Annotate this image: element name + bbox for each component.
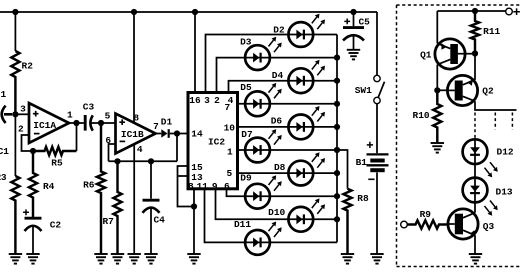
svg-text:IC1A: IC1A <box>33 120 56 131</box>
switch SW1 <box>374 75 385 103</box>
label D2 <box>273 25 285 36</box>
svg-text:1: 1 <box>227 147 233 158</box>
wire: C5 to ground <box>353 36 355 50</box>
wire: peak-detector feedback line <box>109 160 178 162</box>
LED D11 <box>245 222 282 255</box>
svg-text:4: 4 <box>137 144 143 155</box>
svg-text:14: 14 <box>191 129 203 140</box>
pin label 16 <box>189 95 201 106</box>
svg-text:2: 2 <box>18 123 24 134</box>
junction: Q1 collector / Q2 base / R10 node <box>434 87 440 93</box>
label D13 <box>496 187 513 198</box>
battery B1 <box>367 154 389 170</box>
svg-text:D13: D13 <box>496 187 513 198</box>
wire: input node down to R3 <box>14 114 16 176</box>
junction: IC1B +input bias node <box>98 120 104 126</box>
svg-text:D2: D2 <box>273 25 285 36</box>
label C2 <box>50 220 62 231</box>
junction: C4 tap <box>148 158 154 164</box>
LED D10 <box>288 198 325 231</box>
label D5 <box>240 82 252 93</box>
junction: cathode rail at y=150.0 <box>334 147 340 153</box>
label IC1B <box>121 129 144 140</box>
wire: rail to R2 <box>14 12 16 51</box>
label 1 (cut-off input designator) <box>1 89 7 100</box>
wire: option +V rail <box>437 10 506 12</box>
wire: IC2 pin 6 to D9 row <box>227 189 338 196</box>
label D8 <box>274 162 286 173</box>
LED D2 <box>288 14 325 47</box>
svg-text:B1: B1 <box>356 157 368 168</box>
label R9 <box>420 209 432 220</box>
svg-text:D6: D6 <box>271 115 283 126</box>
wire: detector node to feedback line <box>176 134 178 162</box>
wire: IC2 pin 7 to D5 row <box>237 103 338 105</box>
svg-text:R9: R9 <box>420 209 432 220</box>
wire: Q2 collector to LED chain bus <box>475 101 517 110</box>
svg-text:8: 8 <box>188 181 194 192</box>
pin label 8 <box>188 181 194 192</box>
wire: IC2 pin 2 to D3 row <box>217 58 338 92</box>
svg-text:R4: R4 <box>43 181 55 192</box>
label D1 <box>161 117 173 128</box>
ground: B1 <box>370 254 383 264</box>
plus sign IC1A +input <box>33 111 39 117</box>
svg-text:D9: D9 <box>240 173 252 184</box>
junction: R7 tap <box>114 158 120 164</box>
svg-text:C3: C3 <box>83 102 95 113</box>
LED D4 <box>288 60 325 93</box>
IC U2 (IC2 LED bar driver) body <box>188 93 238 189</box>
svg-text:C1: C1 <box>0 146 9 157</box>
label D12 <box>497 146 514 157</box>
wire: IC2 pin 9 to D10 row <box>216 189 338 219</box>
pin label 15 <box>191 162 203 173</box>
plus sign C5 polarity <box>344 19 350 25</box>
svg-text:SW1: SW1 <box>355 85 372 96</box>
pin label 13 <box>191 172 203 183</box>
svg-text:Q1: Q1 <box>420 50 432 61</box>
label SW1 <box>355 85 372 96</box>
junction: input bias node on rail <box>12 9 18 15</box>
svg-text:IC1B: IC1B <box>121 129 144 140</box>
transistor Q2 <box>446 75 478 105</box>
svg-text:R3: R3 <box>0 172 7 183</box>
svg-text:D7: D7 <box>241 129 253 140</box>
dashed enclosure box (optional driver section) <box>397 5 520 267</box>
svg-text:C2: C2 <box>50 220 62 231</box>
label C5 <box>358 16 370 27</box>
LED D12 <box>463 139 498 177</box>
pin label 5 <box>226 168 232 179</box>
junction: pin8/ref node <box>191 203 197 209</box>
svg-text:Q2: Q2 <box>482 85 494 96</box>
resistor R2 <box>11 51 19 114</box>
label IC1A <box>33 120 56 131</box>
resistor R3 <box>11 176 19 254</box>
pin label 10 <box>224 122 236 133</box>
op-amp IC1B <box>116 114 156 154</box>
pin label 7 <box>224 102 230 113</box>
LED D13 <box>463 178 498 216</box>
wire: LED common cathode rail <box>336 35 338 243</box>
transistor Q1 (PNP) <box>435 39 466 69</box>
capacitor C2 (electrolytic) <box>25 218 42 231</box>
svg-text:D10: D10 <box>268 207 285 218</box>
junction: C5 tap on rail <box>350 9 356 15</box>
wire: R5 to IC1A output <box>76 123 78 151</box>
wire: IC1B pin 6 feedback bracket <box>109 144 116 161</box>
minus sign IC1B -input <box>120 140 126 142</box>
label D10 <box>268 207 285 218</box>
svg-text:D5: D5 <box>240 82 252 93</box>
wire: rail drop to SW1 <box>376 12 378 75</box>
svg-text:R7: R7 <box>102 216 114 227</box>
svg-text:11: 11 <box>197 181 209 192</box>
pin label 7 (IC1B out) <box>153 121 159 132</box>
label R6 <box>83 179 95 190</box>
svg-text:R6: R6 <box>83 179 95 190</box>
wire: IC2 pin 11 to D11 row <box>205 189 338 242</box>
label R8 <box>357 193 369 204</box>
plus sign B1 positive <box>367 142 373 148</box>
svg-text:7: 7 <box>224 102 230 113</box>
svg-text:5: 5 <box>105 110 111 121</box>
junction: cathode rail at y=57.6 <box>334 55 340 61</box>
wire: IC1B pin 4 to ground <box>133 144 135 254</box>
LED D8 <box>288 152 325 185</box>
pin label 2 <box>214 95 220 106</box>
label D4 <box>272 70 284 81</box>
label Q1 <box>420 50 432 61</box>
ground: R3 <box>9 254 22 264</box>
junction: IC2 pin16 supply tap on rail <box>192 9 198 15</box>
svg-text:7: 7 <box>153 121 159 132</box>
label D6 <box>271 115 283 126</box>
junction: R11 tap on option rail <box>472 8 478 14</box>
wire: Q1 base to R11 node <box>465 53 476 55</box>
plus sign C2 polarity <box>23 209 29 215</box>
pin label 11 <box>197 181 209 192</box>
resistor R9 <box>407 220 446 228</box>
svg-text:D12: D12 <box>497 146 514 157</box>
svg-text:R11: R11 <box>483 26 500 37</box>
svg-text:3: 3 <box>204 95 210 106</box>
wire: IC2 pin 10 to D6 row <box>237 126 338 128</box>
junction: cathode rail at y=126.9 <box>334 124 340 130</box>
terminal: + supply input <box>506 8 513 15</box>
label R2 <box>22 60 34 71</box>
label Q3 <box>483 221 495 232</box>
resistor R10 <box>433 90 441 143</box>
label R11 <box>483 26 500 37</box>
label D11 <box>234 219 251 230</box>
pin label 5 (IC1B +in) <box>105 110 111 121</box>
pin label 3 <box>204 95 210 106</box>
wire: C2 to ground <box>32 226 34 254</box>
label D7 <box>241 129 253 140</box>
diode D1 <box>161 129 168 138</box>
svg-text:C4: C4 <box>153 214 165 225</box>
svg-text:R2: R2 <box>22 60 34 71</box>
LED D9 <box>245 175 282 208</box>
svg-text:R5: R5 <box>51 158 63 169</box>
resistor R8 <box>343 189 351 254</box>
svg-text:Q3: Q3 <box>483 221 495 232</box>
pin label 3 (IC1A +in) <box>20 103 26 114</box>
svg-text:D3: D3 <box>240 36 252 47</box>
capacitor C4 <box>143 200 160 213</box>
ground: C2 <box>26 254 39 264</box>
pin label 6 <box>224 181 230 192</box>
terminal: drive input <box>401 221 408 228</box>
wire: SW1 to battery B1 <box>376 104 378 154</box>
ground: R6 <box>94 254 107 264</box>
wire: IC2 pin 1 to D7 row <box>237 149 338 151</box>
pin label 1 <box>227 147 233 158</box>
ground: IC2 pin 8 <box>187 254 200 264</box>
op-amp IC1A <box>29 103 69 143</box>
label R10 <box>413 110 430 121</box>
wire: IC2 pin 3 to D2 row <box>206 35 338 93</box>
wire: +V top supply rail <box>0 11 377 13</box>
wire: IC1B pin 8 to top rail <box>133 12 135 123</box>
plus sign supply terminal <box>513 8 520 15</box>
label R7 <box>102 216 114 227</box>
ground: R7 <box>111 254 124 264</box>
pin label 1 (IC1A out) <box>67 110 73 121</box>
minus sign IC1A -input <box>34 133 40 135</box>
junction: cathode rail at y=219.3 <box>334 216 340 222</box>
junction: cathode rail at y=196.2 <box>334 193 340 199</box>
wire: IC2 pins 15,13 bus <box>178 166 195 207</box>
wire: input node to pin 3 <box>15 113 29 115</box>
wire: B1 to ground <box>376 172 378 254</box>
wire: C3 to IC1B pin 5 <box>91 122 115 124</box>
svg-text:1: 1 <box>1 89 7 100</box>
wire: IC1B output to D1 <box>156 133 162 135</box>
wire: C4 to ground <box>150 208 152 254</box>
pin label 4 (IC1B V-) <box>137 144 143 155</box>
label C3 <box>83 102 95 113</box>
plus sign IC1B +input <box>119 119 125 125</box>
capacitor C1 (cut off at image edge) <box>2 106 13 123</box>
wire: Q1 collector down to Q2 base node <box>436 65 438 91</box>
wire: IC1A output to C3 <box>69 122 84 124</box>
svg-text:1: 1 <box>67 110 73 121</box>
label IC2 <box>208 136 225 147</box>
transistor Q3 <box>447 209 479 239</box>
node: IC1A non-inverting input junction <box>12 111 18 117</box>
junction: detector output node <box>174 130 180 136</box>
junction: IC1B pin8 supply tap on rail <box>131 9 137 15</box>
ground: C4 <box>144 254 157 264</box>
svg-text:3: 3 <box>20 103 26 114</box>
wire: Q2 base lead <box>437 89 446 91</box>
junction: cathode rail at y=103.8 <box>334 101 340 107</box>
wire: IC2 pin 16 to rail <box>194 12 196 92</box>
svg-text:D1: D1 <box>161 117 173 128</box>
label R4 <box>43 181 55 192</box>
svg-text:D4: D4 <box>272 70 284 81</box>
resistor R11 <box>471 11 479 54</box>
wire: C4 top lead <box>150 161 152 198</box>
resistor R4 <box>29 151 37 217</box>
capacitor C5 (supply decoupling) <box>343 28 364 41</box>
label B1 <box>356 157 368 168</box>
wire: Q3 emitter to ground <box>474 235 476 254</box>
wire: D1 cathode to IC2 pin 14 <box>170 133 188 135</box>
pin label 8 (IC1B V+) <box>133 112 139 123</box>
svg-text:2: 2 <box>214 95 220 106</box>
pin label 14 <box>191 129 203 140</box>
label C1 <box>0 146 9 157</box>
ground: Q3 <box>469 254 482 264</box>
capacitor C3 <box>85 115 93 131</box>
wire: option LED chain vertical <box>474 139 476 213</box>
resistor R7 <box>113 161 121 254</box>
pin label 4 <box>228 95 234 106</box>
junction: cathode rail at y=173.1 <box>334 170 340 176</box>
svg-text:IC2: IC2 <box>208 136 225 147</box>
wire: IC2 pin 4 to D4 row <box>229 81 338 92</box>
svg-text:5: 5 <box>226 168 232 179</box>
wire: R11 node to Q2 emitter <box>474 54 476 80</box>
pin label 2 (IC1A -in) <box>18 123 24 134</box>
LED D3 <box>245 37 282 70</box>
label R5 <box>51 158 63 169</box>
LED D5 <box>245 83 282 116</box>
label R3 (cut at edge) <box>0 172 7 183</box>
junction: IC1A feedback node <box>30 148 36 154</box>
LED D6 <box>288 106 325 139</box>
junction: cathode rail at y=80.7 <box>334 78 340 84</box>
wire: option rail to Q1 emitter <box>436 11 438 43</box>
wire: IC2 pin 8 to ground <box>193 189 195 254</box>
label D3 <box>240 36 252 47</box>
junction: IC1A output node <box>73 120 79 126</box>
svg-text:R8: R8 <box>357 193 369 204</box>
svg-text:C5: C5 <box>358 16 370 27</box>
label C4 <box>153 214 165 225</box>
minus sign B1 negative <box>368 178 374 180</box>
label Q2 <box>482 85 494 96</box>
LED D7 <box>245 129 282 162</box>
wire: rail to C5 <box>353 12 355 26</box>
wire: IC1A pin 2 feedback bracket <box>22 135 34 151</box>
junction: Q1 base / R11 / Q2 emitter node <box>472 50 478 56</box>
dashed continuation drops to LED chains <box>475 113 512 140</box>
wire: cathode rail to R8 <box>337 150 348 189</box>
pin label 9 <box>212 181 218 192</box>
svg-text:16: 16 <box>189 95 201 106</box>
label D9 <box>240 173 252 184</box>
svg-text:R10: R10 <box>413 110 430 121</box>
ground: IC1B pin 4 <box>128 254 141 264</box>
ground: C5 <box>347 50 360 60</box>
svg-text:D8: D8 <box>274 162 286 173</box>
wire: IC2 pin 5 to D8 row <box>237 172 338 174</box>
svg-text:D11: D11 <box>234 219 251 230</box>
ground: R10 <box>431 143 444 153</box>
resistor R6 <box>97 123 105 254</box>
resistor R5 <box>33 147 77 155</box>
pin label 6 (IC1B -in) <box>105 135 111 146</box>
ground: R8 <box>341 254 354 264</box>
svg-text:10: 10 <box>224 122 236 133</box>
